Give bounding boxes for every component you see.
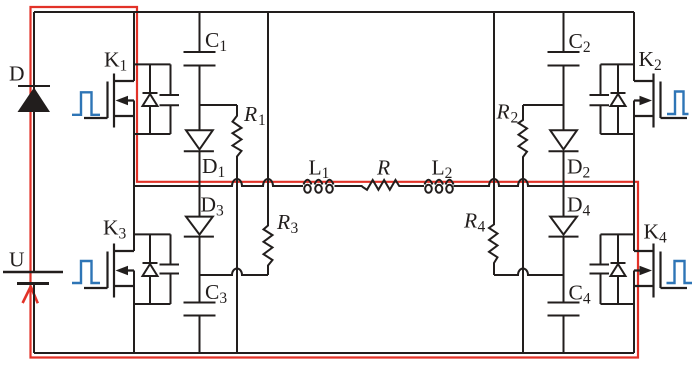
- svg-text:R: R: [496, 100, 510, 124]
- svg-text:4: 4: [478, 219, 486, 236]
- svg-text:U: U: [9, 248, 25, 272]
- svg-text:C1: C1: [205, 28, 227, 55]
- svg-text:D1: D1: [202, 154, 225, 181]
- svg-text:L2: L2: [432, 156, 453, 183]
- svg-text:R: R: [243, 102, 257, 126]
- svg-text:D: D: [9, 62, 25, 86]
- svg-text:D3: D3: [201, 193, 225, 220]
- svg-text:C3: C3: [205, 280, 227, 307]
- svg-text:R: R: [463, 209, 477, 233]
- svg-text:K4: K4: [644, 220, 668, 247]
- svg-text:C2: C2: [569, 29, 591, 56]
- svg-text:L1: L1: [309, 156, 330, 183]
- svg-text:2: 2: [511, 110, 519, 127]
- svg-text:1: 1: [258, 112, 266, 129]
- svg-text:3: 3: [291, 220, 299, 237]
- svg-text:K1: K1: [104, 48, 127, 75]
- svg-text:K2: K2: [639, 47, 662, 74]
- svg-text:R: R: [276, 210, 290, 234]
- svg-text:D4: D4: [567, 193, 591, 220]
- svg-text:C4: C4: [569, 281, 591, 308]
- svg-text:R: R: [376, 156, 390, 180]
- svg-text:K3: K3: [103, 216, 127, 243]
- svg-text:D2: D2: [567, 155, 590, 182]
